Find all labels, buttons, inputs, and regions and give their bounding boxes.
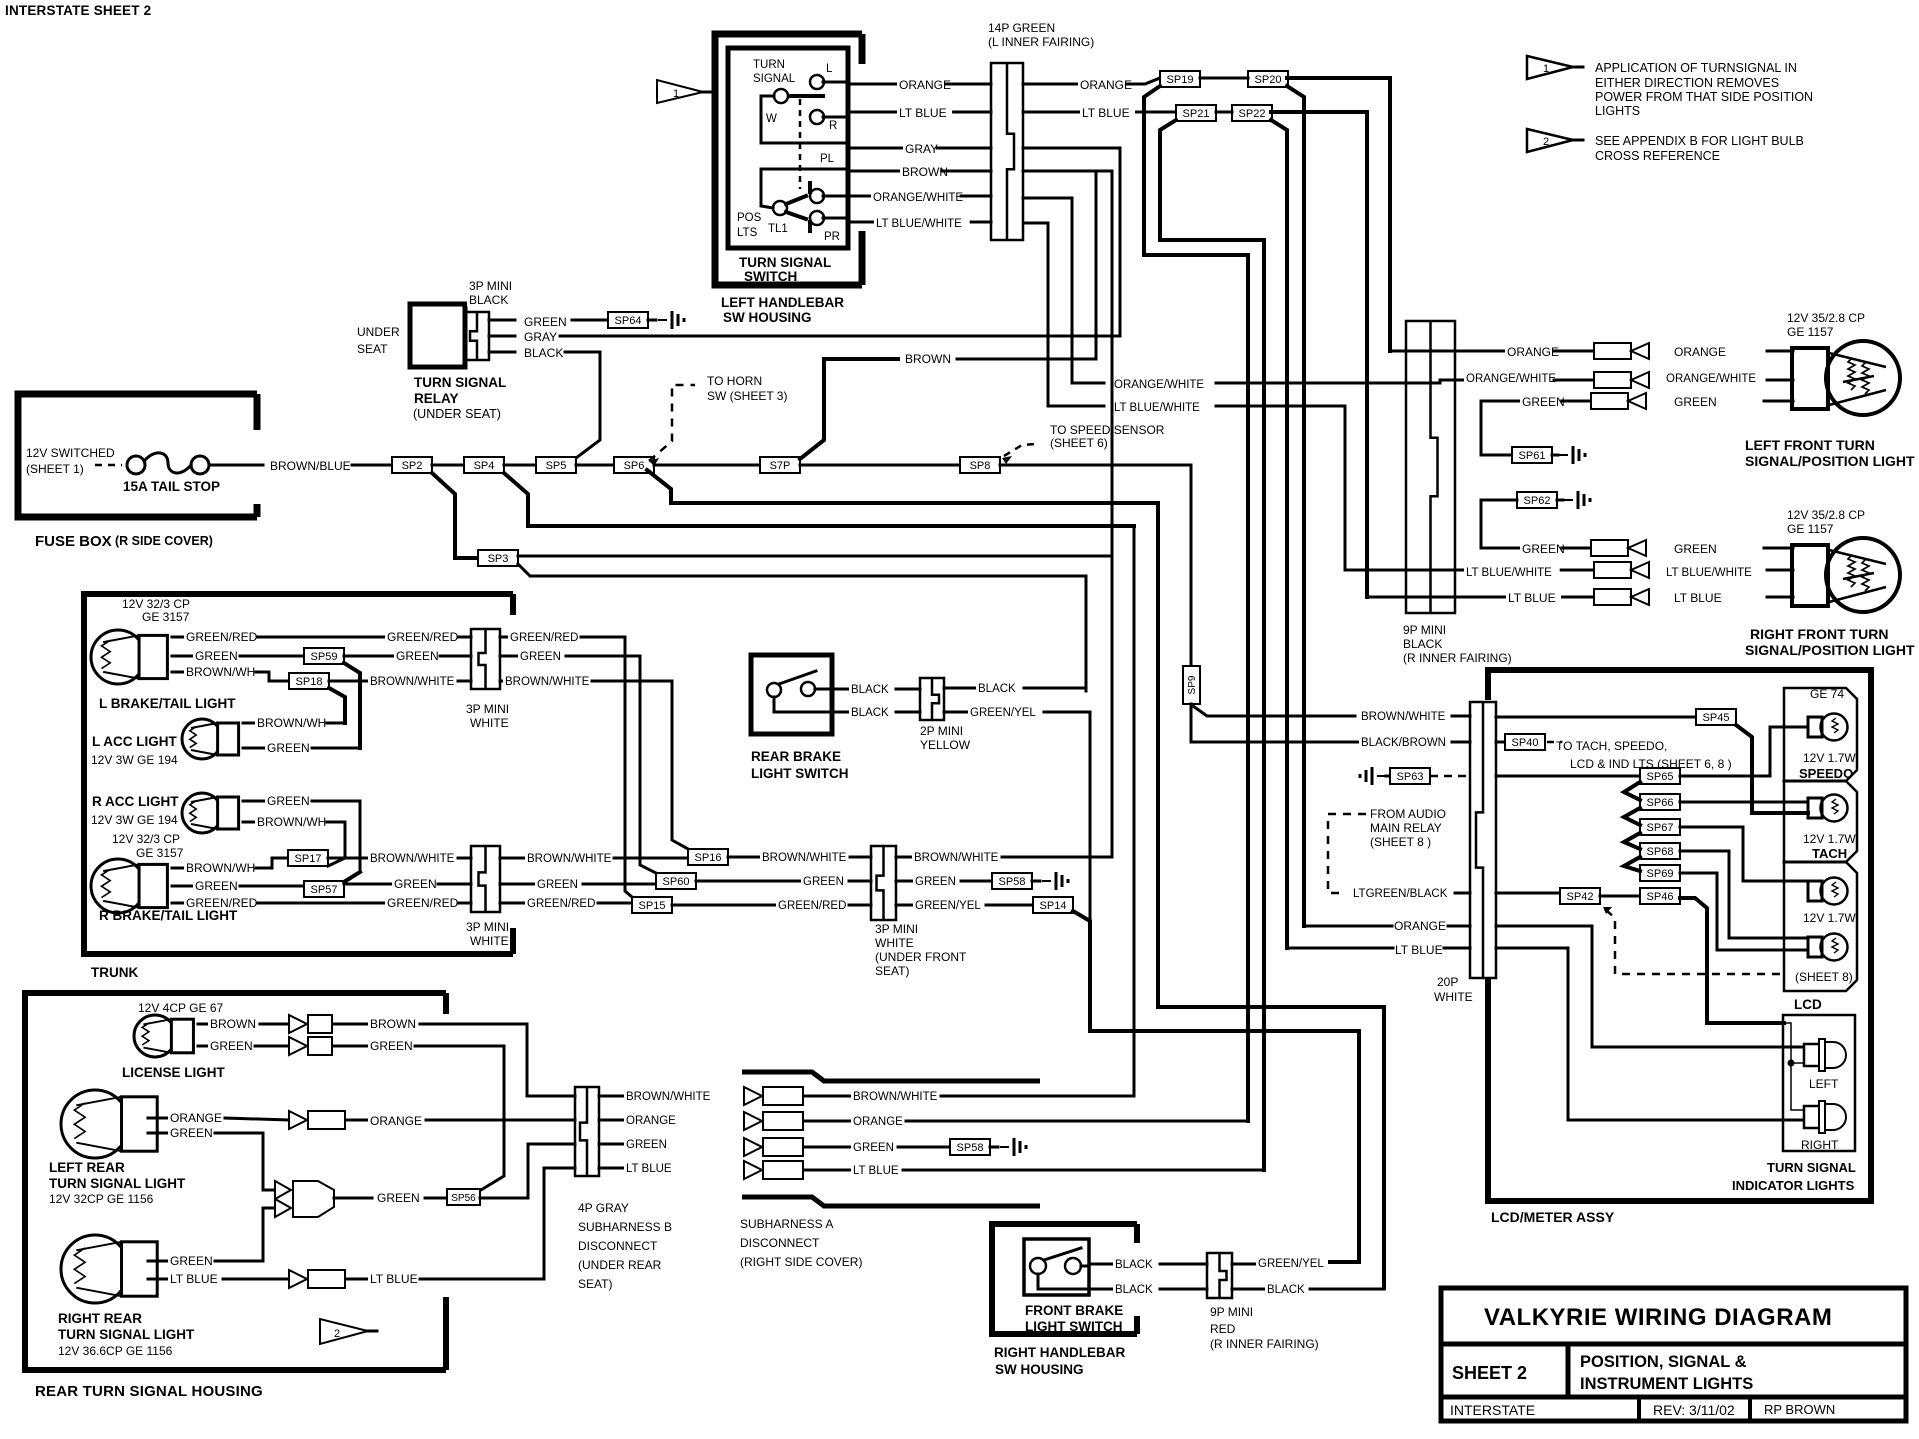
wire SP19 branch down bundle	[1144, 86, 1248, 1121]
svg-text:TO TACH, SPEEDO,: TO TACH, SPEEDO,	[1556, 739, 1667, 753]
svg-text:14P GREEN: 14P GREEN	[988, 21, 1055, 35]
svg-text:LT BLUE: LT BLUE	[853, 1165, 899, 1177]
wire into 20P	[1455, 892, 1470, 895]
svg-text:GREEN/RED: GREEN/RED	[778, 900, 846, 912]
svg-text:GE 1157: GE 1157	[1787, 522, 1834, 536]
svg-text:SP15: SP15	[639, 900, 666, 912]
arrowhead to SP6	[649, 458, 659, 466]
wire note tick	[1573, 66, 1583, 69]
TL1 link upper	[786, 196, 806, 204]
note triangle 2 pointer	[320, 1319, 368, 1344]
wire GREEN to SP56	[415, 1046, 504, 1190]
svg-text:12V 35/2.8 CP: 12V 35/2.8 CP	[1787, 508, 1865, 522]
wire LT BLUE into label	[1287, 947, 1393, 950]
splice SP17	[288, 850, 328, 866]
svg-text:MAIN RELAY: MAIN RELAY	[1370, 821, 1442, 835]
wire SP22 branch down to LT BLUE meter row	[1271, 120, 1287, 948]
wire LT BLUE 14P to SP21	[1023, 111, 1176, 114]
label BROWN/BLUE	[268, 460, 345, 472]
stub	[198, 1045, 208, 1048]
wire GREEN to SP57 branch	[312, 801, 360, 872]
svg-text:SHEET 2: SHEET 2	[1452, 1363, 1527, 1383]
svg-text:GREEN: GREEN	[377, 1191, 420, 1205]
label GREEN/YEL	[1256, 1258, 1323, 1270]
svg-text:20P: 20P	[1437, 975, 1458, 989]
label ORANGE/WHITE	[1112, 379, 1201, 391]
svg-text:BROWN: BROWN	[905, 352, 951, 366]
svg-text:R ACC LIGHT: R ACC LIGHT	[92, 794, 179, 809]
svg-text:BLACK: BLACK	[1115, 1259, 1153, 1271]
rear brake switch contact 2	[801, 682, 815, 696]
svg-text:BROWN/WHITE: BROWN/WHITE	[914, 852, 999, 864]
svg-text:LT BLUE/WHITE: LT BLUE/WHITE	[876, 218, 962, 230]
wire BROWN 14P down to SP3 row and BROWN/WHITE row	[1023, 171, 1112, 855]
svg-text:(UNDER FRONT: (UNDER FRONT	[875, 950, 967, 964]
svg-text:LT BLUE: LT BLUE	[1082, 106, 1130, 120]
bulb L acc light	[182, 719, 222, 759]
svg-text:BROWN/WHITE: BROWN/WHITE	[370, 676, 455, 688]
label GREEN/RED	[776, 900, 843, 912]
svg-text:SP9: SP9	[1187, 675, 1198, 694]
svg-text:GREEN: GREEN	[195, 649, 238, 663]
label LT BLUE	[851, 1165, 904, 1177]
svg-text:LEFT FRONT TURN: LEFT FRONT TURN	[1745, 437, 1875, 453]
subharness A bundle upper	[742, 1072, 1040, 1081]
wire BROWN switch to 14P	[848, 170, 991, 173]
svg-text:SP58: SP58	[957, 1142, 984, 1154]
wire SP21 branch down bundle	[1160, 120, 1264, 1170]
stub into 3P	[458, 680, 471, 683]
wire SP22 right to 9P LT BLUE	[1271, 112, 1367, 597]
label GREEN	[368, 1040, 408, 1052]
label GREEN	[1672, 543, 1712, 555]
label LT BLUE	[368, 1273, 423, 1285]
wire SP69 to bulb 4	[1680, 873, 1808, 950]
tach section divider	[1784, 861, 1846, 864]
stub	[148, 1260, 168, 1263]
wire BROWN/WH join	[327, 722, 345, 725]
svg-text:R: R	[829, 120, 837, 132]
svg-text:LT BLUE/WHITE: LT BLUE/WHITE	[1466, 567, 1552, 579]
stub out	[944, 687, 976, 690]
wire ORANGE to 4P	[426, 1119, 575, 1122]
svg-text:SP65: SP65	[1647, 771, 1674, 783]
svg-text:SP66: SP66	[1647, 797, 1674, 809]
label GREEN	[392, 878, 432, 890]
svg-text:BROWN/WHITE: BROWN/WHITE	[505, 676, 590, 688]
svg-text:ORANGE: ORANGE	[1674, 345, 1726, 359]
label ORANGE	[168, 1112, 216, 1124]
svg-text:BROWN/WHITE: BROWN/WHITE	[1361, 711, 1446, 723]
stub	[172, 671, 184, 674]
wire ORANGE to vertical	[906, 1120, 1248, 1123]
stub out	[500, 883, 535, 886]
label GREEN	[1520, 396, 1560, 408]
switch contact POS	[773, 201, 787, 215]
label GREEN	[193, 650, 233, 662]
svg-text:GREEN: GREEN	[537, 879, 578, 891]
wire note tick	[1573, 139, 1583, 142]
splice SP6	[614, 457, 654, 473]
right front bulb base	[1792, 545, 1828, 606]
contact GREEN merge arrows	[275, 1181, 291, 1199]
title divider 2	[1441, 1395, 1906, 1400]
wire ORANGE 14P to SP19	[1023, 78, 1160, 84]
splice SP62	[1517, 492, 1557, 508]
svg-text:GREEN: GREEN	[394, 877, 437, 891]
wire SP57 out	[344, 883, 392, 886]
stub	[172, 655, 193, 658]
wire SP6 branch to front brake BLACK	[647, 470, 1384, 1288]
svg-text:BROWN/WH: BROWN/WH	[257, 815, 326, 829]
wire LT BLUE through 9P	[1367, 596, 1594, 599]
svg-text:LT BLUE: LT BLUE	[1674, 591, 1722, 605]
svg-text:(SHEET 8 ): (SHEET 8 )	[1370, 835, 1431, 849]
svg-text:ORANGE: ORANGE	[170, 1111, 222, 1125]
svg-text:9P MINI: 9P MINI	[1403, 623, 1446, 637]
wire to bulb	[1767, 569, 1793, 572]
svg-text:SP21: SP21	[1183, 108, 1210, 120]
stub	[243, 821, 255, 824]
svg-text:SP17: SP17	[295, 853, 322, 865]
stub into 3P	[458, 857, 471, 860]
rear brake light switch housing	[751, 655, 832, 734]
svg-text:TURN SIGNAL LIGHT: TURN SIGNAL LIGHT	[58, 1327, 195, 1342]
wire SP9 stem	[1190, 704, 1193, 716]
label LTGREEN/BLACK	[1351, 888, 1447, 900]
wire lamp internal 2	[1791, 1063, 1803, 1110]
svg-text:GREEN: GREEN	[267, 741, 310, 755]
svg-text:GREEN: GREEN	[626, 1139, 667, 1151]
svg-text:APPLICATION OF TURNSIGNAL IN: APPLICATION OF TURNSIGNAL IN	[1595, 61, 1797, 75]
wire	[333, 1045, 368, 1048]
wire BROWN to 4P BROWN/WHITE row	[420, 1024, 575, 1096]
svg-text:SUBHARNESS B: SUBHARNESS B	[578, 1220, 672, 1234]
wire relay GREEN stub	[489, 319, 515, 322]
splice SP65	[1640, 768, 1680, 784]
svg-text:SP14: SP14	[1040, 900, 1067, 912]
connector 3P mini white upper	[471, 629, 500, 689]
wire SP20 branch down to ORANGE meter row	[1287, 86, 1304, 926]
ground at SP61	[1559, 454, 1568, 456]
stub out	[599, 1143, 624, 1146]
stub into 3P#3	[850, 856, 871, 859]
svg-text:SIGNAL: SIGNAL	[753, 73, 796, 85]
wire into 20P	[1448, 925, 1470, 928]
wire SP20 right to 9P ORANGE	[1287, 78, 1390, 351]
splice SP60	[656, 873, 696, 889]
label GREEN	[535, 879, 574, 891]
label GREEN	[168, 1255, 208, 1267]
wire	[346, 1278, 368, 1281]
wire SP17 out	[328, 857, 368, 860]
label BLACK	[849, 707, 888, 719]
dashed SP40 note	[1547, 741, 1562, 744]
svg-text:12V 1.7W: 12V 1.7W	[1803, 751, 1856, 765]
svg-text:(R INNER FAIRING): (R INNER FAIRING)	[1403, 651, 1512, 665]
connector 3P mini white lower	[471, 846, 500, 912]
label BROWN/WH	[184, 862, 247, 874]
dashed SP42 to LCD sheet8	[1606, 910, 1781, 974]
stub out	[1232, 1288, 1265, 1291]
wire note1 tick	[703, 91, 712, 94]
connector 2P mini yellow	[920, 678, 944, 720]
wire BLACK up to SP3 branch	[1024, 576, 1086, 688]
svg-text:12V 4CP GE 67: 12V 4CP GE 67	[138, 1001, 223, 1015]
splice SP66	[1640, 794, 1680, 810]
svg-text:GREEN/YEL: GREEN/YEL	[970, 707, 1036, 719]
svg-text:RIGHT REAR: RIGHT REAR	[58, 1311, 142, 1326]
label ORANGE/WHITE	[1664, 373, 1753, 385]
switch stub	[1081, 1265, 1088, 1268]
splice SP22	[1232, 105, 1272, 121]
label BROWN/WH	[184, 666, 247, 678]
title divider v3	[1748, 1397, 1752, 1421]
splice SP45	[1696, 709, 1736, 725]
instrument cluster box	[1784, 688, 1857, 991]
svg-text:SP22: SP22	[1239, 108, 1266, 120]
wire SP61 to ground	[1552, 454, 1558, 457]
wire ORANGE to LEFT indicator	[1496, 926, 1803, 1047]
label GREEN/RED	[508, 632, 575, 644]
bulb meter illumination 3	[1808, 881, 1822, 901]
label LT BLUE	[1672, 592, 1727, 604]
wire SP58 to ground	[990, 1146, 998, 1149]
label LT BLUE	[1506, 592, 1561, 604]
svg-text:BROWN: BROWN	[210, 1017, 256, 1031]
label ORANGE	[1505, 346, 1553, 358]
left front bulb base	[1792, 348, 1828, 409]
svg-text:SP5: SP5	[546, 460, 567, 472]
svg-text:SP3: SP3	[488, 553, 509, 565]
ground at SP58	[1042, 880, 1051, 882]
speedo section divider	[1784, 780, 1846, 783]
svg-text:12V 32/3 CP: 12V 32/3 CP	[112, 832, 180, 846]
label LT BLUE	[897, 107, 952, 119]
svg-text:(UNDER REAR: (UNDER REAR	[578, 1258, 662, 1272]
label BROWN/WHITE	[503, 676, 584, 688]
splice SP58	[992, 873, 1032, 889]
label BROWN	[208, 1018, 248, 1030]
splice SP20	[1248, 71, 1288, 87]
front brake light switch housing	[992, 1224, 1137, 1334]
TL1 tick lower	[808, 222, 812, 231]
svg-text:RIGHT FRONT TURN: RIGHT FRONT TURN	[1750, 626, 1888, 642]
wire S7P branch to BROWN	[800, 359, 898, 459]
svg-text:GREEN/RED: GREEN/RED	[186, 896, 258, 910]
svg-text:SP18: SP18	[296, 676, 323, 688]
svg-text:RELAY: RELAY	[414, 391, 459, 406]
wire funnel out	[334, 1197, 372, 1200]
svg-text:12V 36.6CP GE 1156: 12V 36.6CP GE 1156	[58, 1344, 173, 1358]
svg-text:SWITCH: SWITCH	[744, 269, 797, 284]
wire TL1 lower to box edge	[823, 217, 846, 220]
fuse 15A TAIL STOP	[127, 456, 145, 474]
stub	[243, 722, 255, 725]
label GREEN	[265, 742, 305, 754]
front brake switch contact 2	[1065, 1258, 1081, 1274]
wire POS LTS branch	[761, 169, 773, 208]
wire into 20P	[1452, 715, 1470, 718]
svg-text:12V 1.7W: 12V 1.7W	[1803, 911, 1856, 925]
left front turn signal bulb	[1826, 341, 1900, 415]
label BROWN/WHITE	[760, 852, 841, 864]
switch contact L	[810, 75, 824, 89]
svg-text:R BRAKE/TAIL LIGHT: R BRAKE/TAIL LIGHT	[99, 908, 238, 923]
svg-text:12V SWITCHED: 12V SWITCHED	[26, 446, 115, 460]
label ORANGE	[368, 1115, 416, 1127]
wire SP66 to tach bulb	[1680, 801, 1808, 804]
wire GREEN	[255, 1045, 288, 1048]
svg-text:TRUNK: TRUNK	[91, 965, 138, 980]
stub into 3P	[440, 655, 471, 658]
label GREEN	[168, 1127, 208, 1139]
arrowhead to SP8	[1002, 456, 1012, 464]
svg-text:TO HORN: TO HORN	[707, 374, 762, 388]
wire BLACK to vertical	[1310, 1288, 1384, 1291]
svg-text:INTERSTATE: INTERSTATE	[1450, 1402, 1535, 1418]
svg-text:(SHEET 6): (SHEET 6)	[1050, 436, 1108, 450]
svg-text:TL1: TL1	[768, 223, 788, 235]
svg-text:SP16: SP16	[695, 852, 722, 864]
svg-text:(RIGHT SIDE COVER): (RIGHT SIDE COVER)	[740, 1255, 862, 1269]
svg-text:BROWN/WH: BROWN/WH	[257, 716, 326, 730]
svg-text:GREEN: GREEN	[195, 879, 238, 893]
svg-text:3P MINI: 3P MINI	[466, 920, 509, 934]
wire GREEN/YEL down to SP14	[1044, 712, 1090, 921]
label LT BLUE	[624, 1163, 677, 1175]
svg-text:SP68: SP68	[1647, 846, 1674, 858]
label GREEN	[375, 1192, 415, 1204]
contact LT BLUE/WHITE right front	[1594, 562, 1631, 578]
svg-text:DISCONNECT: DISCONNECT	[578, 1239, 658, 1253]
svg-text:LT BLUE: LT BLUE	[1395, 943, 1443, 957]
svg-text:LCD/METER ASSY: LCD/METER ASSY	[1491, 1209, 1615, 1225]
label LT BLUE	[1393, 944, 1448, 956]
svg-text:BLACK: BLACK	[851, 684, 889, 696]
title divider v2	[1637, 1397, 1641, 1421]
svg-text:UNDER: UNDER	[357, 325, 400, 339]
stub into 3P#3	[849, 904, 871, 907]
indicator lamp LEFT	[1804, 1044, 1821, 1066]
wire BLACK to 2P	[896, 711, 920, 714]
svg-text:PL: PL	[820, 153, 835, 165]
svg-text:SP64: SP64	[615, 315, 642, 327]
svg-text:SP20: SP20	[1255, 74, 1282, 86]
svg-text:ORANGE/WHITE: ORANGE/WHITE	[1114, 379, 1204, 391]
wire to bulb	[1767, 596, 1793, 599]
wire to bulb	[1767, 379, 1793, 382]
contact GREEN left front	[1591, 393, 1628, 409]
svg-text:LICENSE LIGHT: LICENSE LIGHT	[122, 1065, 226, 1080]
dashed to horn switch	[649, 385, 695, 461]
label GRAY	[522, 331, 555, 343]
svg-text:SW HOUSING: SW HOUSING	[723, 310, 812, 325]
stub out	[500, 636, 508, 639]
svg-text:BROWN/BLUE: BROWN/BLUE	[270, 459, 351, 473]
svg-text:SEE APPENDIX B FOR LIGHT BULB: SEE APPENDIX B FOR LIGHT BULB	[1595, 134, 1804, 148]
svg-text:GRAY: GRAY	[524, 330, 557, 344]
svg-text:SP4: SP4	[474, 460, 495, 472]
switch contact TL1 upper	[810, 189, 824, 203]
title block	[1441, 1288, 1906, 1421]
wire BROWN drop restored over labels	[1111, 372, 1114, 414]
svg-text:WHITE: WHITE	[875, 936, 914, 950]
svg-text:BLACK: BLACK	[851, 707, 889, 719]
wire SP14 to front brake GREEN/YEL	[1073, 911, 1359, 1262]
switch wiper bar	[789, 94, 823, 98]
label GREEN/RED	[184, 897, 254, 909]
svg-text:SP46: SP46	[1647, 891, 1674, 903]
wire drop to subharness A BROWN/WHITE	[1133, 526, 1136, 1096]
wire R contact to box edge	[823, 116, 846, 119]
dashed SP63 to 20P	[1430, 775, 1470, 778]
svg-text:GREEN/RED: GREEN/RED	[387, 896, 459, 910]
wire SP59 branch to L ACC GREEN	[344, 663, 360, 748]
switch lever	[1044, 1248, 1081, 1260]
stub into 3P	[458, 636, 471, 639]
title divider v1	[1566, 1344, 1571, 1397]
rear brake switch contact 1	[767, 683, 781, 697]
contact GREEN subharness A	[744, 1138, 762, 1156]
svg-text:BLACK: BLACK	[1115, 1284, 1153, 1296]
svg-text:(R SIDE COVER): (R SIDE COVER)	[115, 534, 213, 548]
wire GREEN to SP59	[240, 655, 304, 658]
label GRAY	[903, 143, 936, 155]
label BROWN	[368, 1018, 408, 1030]
svg-text:GREEN/RED: GREEN/RED	[527, 898, 595, 910]
splice SP40	[1505, 734, 1545, 750]
switch contact R	[810, 110, 824, 124]
trunk housing box	[84, 594, 513, 954]
wire GREEN stub	[1481, 547, 1591, 550]
svg-text:SUBHARNESS A: SUBHARNESS A	[740, 1217, 833, 1231]
label BROWN/WHITE	[368, 853, 449, 865]
svg-text:LTS: LTS	[737, 227, 758, 239]
label ORANGE	[897, 79, 945, 91]
wire GREEN stub	[1481, 400, 1591, 403]
svg-text:RP BROWN: RP BROWN	[1764, 1402, 1835, 1417]
svg-text:SP63: SP63	[1397, 771, 1424, 783]
svg-text:GREEN: GREEN	[170, 1254, 213, 1268]
wire GREEN/RED to SP15	[598, 902, 632, 905]
contact ORANGE left front	[1594, 343, 1631, 359]
label LT BLUE/WHITE	[874, 218, 970, 230]
wire LT BLUE to RIGHT indicator	[1496, 948, 1803, 1120]
note 1 pointer triangle	[657, 80, 703, 103]
wire	[805, 1095, 851, 1098]
wire LT BLUE/WHITE 14P down to mid row	[1024, 223, 1104, 406]
connector 3P mini black	[465, 312, 489, 360]
label LT BLUE	[168, 1273, 223, 1285]
dashed from audio main relay	[1328, 814, 1366, 893]
svg-text:GE 74: GE 74	[1810, 687, 1844, 701]
turn signal relay	[410, 304, 465, 367]
label LT BLUE/WHITE	[1112, 402, 1208, 414]
wire W to PL	[761, 96, 846, 143]
svg-text:4P GRAY: 4P GRAY	[578, 1201, 629, 1215]
right front turn signal bulb	[1826, 538, 1900, 612]
splice S7P	[760, 457, 800, 473]
svg-text:L ACC LIGHT: L ACC LIGHT	[92, 734, 177, 749]
wire TL1 upper to box edge	[823, 195, 846, 198]
svg-text:PR: PR	[824, 231, 840, 243]
label BROWN/WH	[255, 717, 318, 729]
stub out	[896, 856, 912, 859]
svg-text:SP2: SP2	[402, 460, 423, 472]
svg-text:W: W	[766, 113, 777, 125]
label BLACK	[976, 683, 1015, 695]
